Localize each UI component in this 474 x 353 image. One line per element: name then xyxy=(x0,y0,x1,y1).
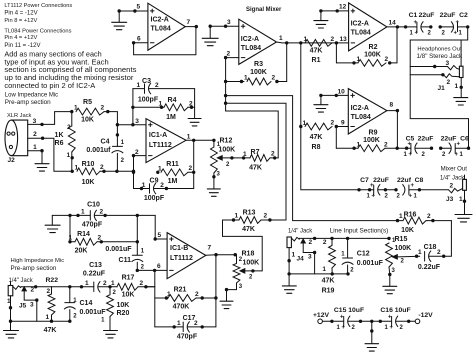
svg-text:2: 2 xyxy=(189,100,193,107)
svg-text:8: 8 xyxy=(390,101,394,108)
svg-text:2: 2 xyxy=(227,50,231,57)
svg-text:0.001uF: 0.001uF xyxy=(80,309,107,316)
svg-text:14: 14 xyxy=(389,20,397,27)
resistor R5 10K xyxy=(76,108,104,115)
ground at pin 5 xyxy=(118,11,120,22)
svg-text:1: 1 xyxy=(177,320,181,327)
svg-text:1: 1 xyxy=(418,249,422,256)
jack J5 high-Z input xyxy=(8,286,13,296)
svg-text:20K: 20K xyxy=(75,247,88,254)
svg-text:6: 6 xyxy=(137,36,141,43)
wire: IC1-A output row xyxy=(186,139,214,141)
svg-text:47K: 47K xyxy=(44,327,57,334)
wire: supply center to ground xyxy=(371,321,373,343)
wire: XLR pin 1 to ground xyxy=(28,151,42,164)
resistor R14 20K xyxy=(69,215,71,241)
svg-text:Headphones Out: Headphones Out xyxy=(417,46,462,52)
wire: pin 12 input xyxy=(321,10,349,12)
wire: mixer output down to line out xyxy=(301,127,359,190)
svg-text:1: 1 xyxy=(81,209,85,216)
ground at J4 xyxy=(282,285,296,287)
svg-text:R6: R6 xyxy=(55,140,64,147)
wire: IC1-A - input pin 2 xyxy=(134,155,147,157)
svg-text:2: 2 xyxy=(309,239,313,246)
resistor R6 1K xyxy=(71,112,73,126)
svg-text:C14: C14 xyxy=(80,300,93,307)
svg-text:1: 1 xyxy=(243,151,247,158)
svg-text:2: 2 xyxy=(67,124,71,131)
wire: R17 junction to - input and feedback xyxy=(146,286,155,288)
svg-text:J5: J5 xyxy=(19,303,27,310)
svg-text:47K: 47K xyxy=(310,47,323,54)
svg-text:12: 12 xyxy=(339,4,347,11)
svg-text:R3: R3 xyxy=(254,61,263,68)
ground at J1 xyxy=(454,97,468,99)
svg-text:22uF: 22uF xyxy=(418,135,434,142)
svg-text:1: 1 xyxy=(357,141,361,148)
svg-text:2: 2 xyxy=(427,213,431,220)
svg-text:TL084: TL084 xyxy=(351,29,371,36)
svg-text:J2: J2 xyxy=(8,157,16,164)
svg-text:6: 6 xyxy=(157,263,161,270)
wire: mixer output down to R8 xyxy=(300,43,302,127)
svg-text:R5: R5 xyxy=(83,99,92,106)
wire: C2 output down to jack line xyxy=(467,27,469,40)
capacitor C16 10uF xyxy=(372,320,392,322)
svg-text:2: 2 xyxy=(100,209,104,216)
svg-text:+: + xyxy=(390,325,394,331)
wire: XLR pin 3 xyxy=(28,112,72,125)
svg-text:+: + xyxy=(372,193,376,199)
svg-text:+: + xyxy=(415,31,419,37)
svg-text:IC2-A: IC2-A xyxy=(351,20,369,27)
svg-text:1: 1 xyxy=(33,144,37,151)
ground stub left xyxy=(51,215,53,225)
svg-text:1: 1 xyxy=(85,280,89,287)
op-amp IC1-B LT1112 (pins 5,6,7) xyxy=(167,233,206,279)
svg-text:1: 1 xyxy=(235,213,239,220)
svg-text:LT1112: LT1112 xyxy=(149,142,172,149)
svg-text:Mixer Out: Mixer Out xyxy=(441,166,468,173)
resistor R22 47K xyxy=(51,287,53,294)
svg-text:C15 10uF: C15 10uF xyxy=(334,307,364,314)
svg-text:C7: C7 xyxy=(360,177,369,184)
svg-text:1: 1 xyxy=(455,83,459,90)
svg-text:10K: 10K xyxy=(117,302,130,309)
wire: feedback loop output 7 to pin 6 xyxy=(134,27,196,55)
svg-text:XLR Jack: XLR Jack xyxy=(7,113,31,119)
wire: pin 2 summing bus vertical xyxy=(225,58,227,111)
ground at XLR pin 1 xyxy=(35,163,49,165)
svg-text:1: 1 xyxy=(459,196,463,203)
svg-text:+: + xyxy=(342,325,346,331)
wire: feedback right side to output xyxy=(215,255,217,327)
svg-text:3: 3 xyxy=(446,60,450,67)
terminal -12V xyxy=(415,319,420,324)
svg-text:2: 2 xyxy=(100,164,104,171)
svg-text:47K: 47K xyxy=(242,226,255,233)
svg-text:1: 1 xyxy=(187,133,191,140)
svg-text:2: 2 xyxy=(384,141,388,148)
svg-text:2: 2 xyxy=(331,36,335,43)
svg-text:1/8" Stereo Jack: 1/8" Stereo Jack xyxy=(417,53,464,60)
resistor R16 10K xyxy=(398,220,404,222)
svg-text:10K: 10K xyxy=(122,291,135,298)
svg-text:+: + xyxy=(388,314,392,320)
op-amp IC1-A LT1112 (pins 3,2,1) xyxy=(146,119,186,163)
svg-text:2: 2 xyxy=(450,183,454,190)
op-amp U-mixer IC2-A TL084 (pins 3,2,1) xyxy=(239,19,277,64)
wire: R18 wiper up to R13 xyxy=(245,270,262,272)
svg-text:C11: C11 xyxy=(119,257,132,264)
svg-text:0.22uF: 0.22uF xyxy=(418,264,441,271)
svg-text:Signal Mixer: Signal Mixer xyxy=(246,7,282,13)
svg-text:R20: R20 xyxy=(117,310,130,317)
note: power connection text block xyxy=(4,3,136,90)
svg-text:Pin 11 = -12V: Pin 11 = -12V xyxy=(4,43,40,49)
ground at J5 xyxy=(4,330,19,332)
svg-text:7: 7 xyxy=(208,245,212,252)
svg-text:Low Impedance Mic: Low Impedance Mic xyxy=(5,92,58,98)
svg-text:1: 1 xyxy=(142,182,146,189)
svg-text:1: 1 xyxy=(244,75,248,82)
wire: J5 to C13 xyxy=(52,286,94,288)
wire: J4 tip row xyxy=(299,237,389,239)
wire: bus line to line input section xyxy=(226,96,398,221)
svg-text:2: 2 xyxy=(194,320,198,327)
svg-text:1: 1 xyxy=(399,213,403,220)
resistor R11 1M feedback xyxy=(161,169,188,176)
wire: pin 3 up to C3 R4 xyxy=(132,89,134,125)
svg-text:100pF: 100pF xyxy=(144,195,165,202)
capacitor C7 22uF xyxy=(359,189,374,191)
svg-text:470pF: 470pF xyxy=(177,334,198,341)
svg-text:22uF: 22uF xyxy=(373,177,389,184)
note: Headphones Out label xyxy=(417,46,464,60)
wire: jack branch around text xyxy=(410,40,468,148)
svg-text:2: 2 xyxy=(31,287,35,294)
svg-text:2: 2 xyxy=(98,235,102,242)
svg-text:C18: C18 xyxy=(424,244,437,251)
ground at power supply xyxy=(365,343,379,345)
svg-text:Line Input Section(s): Line Input Section(s) xyxy=(330,228,389,235)
resistor R19 47K xyxy=(331,238,333,245)
svg-text:0.22uF: 0.22uF xyxy=(83,271,106,278)
svg-text:10K: 10K xyxy=(82,179,95,186)
svg-text:1: 1 xyxy=(111,280,115,287)
svg-text:10: 10 xyxy=(338,88,346,95)
svg-text:10K: 10K xyxy=(401,227,414,234)
wire: bottom row of J5 section xyxy=(11,320,70,322)
svg-text:Pre-amp section: Pre-amp section xyxy=(5,99,51,106)
capacitor C11 0.001uF xyxy=(136,215,138,255)
wire: R12 wiper to R7 xyxy=(223,157,250,159)
wire: top row to IC1-B + input xyxy=(155,215,167,239)
svg-text:C16 10uF: C16 10uF xyxy=(380,307,410,314)
ground at J3 xyxy=(455,214,472,216)
svg-text:+: + xyxy=(370,183,374,189)
svg-text:Pin 8 = +12V: Pin 8 = +12V xyxy=(4,18,37,24)
svg-text:2: 2 xyxy=(33,131,37,138)
svg-text:1: 1 xyxy=(303,120,307,127)
svg-text:+: + xyxy=(411,183,415,189)
resistor R9 100K feedback xyxy=(335,127,337,149)
svg-text:1: 1 xyxy=(75,164,79,171)
resistor R8 47K xyxy=(305,123,332,130)
jack J4 line input xyxy=(287,237,291,248)
svg-text:1: 1 xyxy=(304,36,308,43)
svg-text:9: 9 xyxy=(341,119,345,126)
ground at pin 10 xyxy=(320,95,322,104)
svg-text:C6: C6 xyxy=(460,135,469,142)
svg-text:+: + xyxy=(414,20,418,26)
svg-text:47K: 47K xyxy=(310,134,323,141)
svg-text:TL084: TL084 xyxy=(151,26,171,33)
svg-text:1: 1 xyxy=(67,152,71,159)
svg-text:IC2-A: IC2-A xyxy=(351,105,369,112)
svg-text:C12: C12 xyxy=(357,250,370,257)
svg-text:R21: R21 xyxy=(174,287,187,294)
svg-text:LT1112: LT1112 xyxy=(170,255,193,262)
svg-text:2: 2 xyxy=(103,280,107,287)
svg-text:47K: 47K xyxy=(322,277,335,284)
op-amp U-hp2 IC2-A TL084 (pins 10,9,8) xyxy=(348,89,387,134)
ground at R18 xyxy=(220,300,233,302)
wire: XLR pin 2 xyxy=(28,138,72,171)
svg-text:+: + xyxy=(408,141,412,147)
wire: J3 sleeve to ground xyxy=(464,190,466,214)
svg-text:2: 2 xyxy=(189,165,193,172)
svg-text:Pin 4 = -12V: Pin 4 = -12V xyxy=(4,11,37,17)
wire: output 7 xyxy=(185,26,196,28)
note: High Impedance Mic Pre-amp label xyxy=(9,258,65,284)
svg-text:2: 2 xyxy=(271,151,275,158)
note: Mixer Out label xyxy=(440,166,467,182)
svg-text:3: 3 xyxy=(30,302,34,309)
svg-text:R8: R8 xyxy=(312,144,321,151)
svg-text:7: 7 xyxy=(187,19,191,26)
svg-text:C13: C13 xyxy=(89,262,102,269)
svg-text:C10: C10 xyxy=(87,202,100,209)
svg-text:1: 1 xyxy=(74,105,78,112)
svg-text:0.001uf: 0.001uf xyxy=(86,147,111,154)
capacitor C12 0.001uF xyxy=(347,238,349,258)
svg-text:1/4" Jack: 1/4" Jack xyxy=(288,228,312,234)
wire: J4 sleeve down xyxy=(288,248,290,286)
svg-text:C2: C2 xyxy=(459,12,468,19)
svg-text:1: 1 xyxy=(357,56,361,63)
capacitor C6 22uF xyxy=(441,147,451,149)
note: XLR Jack label xyxy=(7,113,31,119)
svg-text:R1: R1 xyxy=(312,57,321,64)
ground at R12 xyxy=(207,188,220,190)
svg-text:LT1112 Power Connections: LT1112 Power Connections xyxy=(4,3,72,9)
jack J4 switch arrow xyxy=(300,238,306,244)
capacitor C1 22uF xyxy=(416,22,418,32)
capacitor C3 100pF xyxy=(133,88,145,90)
resistor R3 100K feedback xyxy=(226,81,244,83)
svg-text:2: 2 xyxy=(331,120,335,127)
jack J1 tip contact wire pin 3 xyxy=(410,66,447,68)
capacitor C8 22uF xyxy=(385,189,396,191)
svg-text:100K: 100K xyxy=(395,245,412,252)
svg-text:10K: 10K xyxy=(81,117,94,124)
svg-text:2: 2 xyxy=(160,182,164,189)
svg-text:2: 2 xyxy=(437,249,441,256)
svg-text:3: 3 xyxy=(33,118,37,125)
wire: R7 up to summing bus xyxy=(226,111,279,158)
resistor R20 10K xyxy=(109,287,111,295)
svg-text:100K: 100K xyxy=(363,137,380,144)
capacitor C14 0.001uF xyxy=(69,287,71,303)
wire: jack tip stem xyxy=(460,40,462,66)
resistor R1 47K xyxy=(305,40,332,47)
svg-text:+: + xyxy=(409,193,413,199)
wire: output 14 row xyxy=(387,26,417,28)
svg-text:1: 1 xyxy=(158,165,162,172)
svg-text:R17: R17 xyxy=(122,275,135,282)
svg-text:0.001uF: 0.001uF xyxy=(357,260,384,267)
svg-text:+: + xyxy=(454,31,458,37)
svg-text:Pin 4 = +12V: Pin 4 = +12V xyxy=(4,35,37,41)
svg-text:470K: 470K xyxy=(173,304,190,311)
svg-text:connected to pin 2 of IC2-A: connected to pin 2 of IC2-A xyxy=(4,81,95,90)
svg-text:R15: R15 xyxy=(395,236,408,243)
svg-text:R7: R7 xyxy=(251,149,260,156)
svg-text:IC1-A: IC1-A xyxy=(149,132,167,139)
jack J5 switch arrow xyxy=(21,286,27,292)
wire: IC1-A + input pin 3 xyxy=(117,124,146,126)
svg-text:1: 1 xyxy=(159,101,163,108)
svg-text:+: + xyxy=(340,314,344,320)
svg-text:1M: 1M xyxy=(168,178,178,185)
wire: pin 10 input xyxy=(321,94,348,96)
jack J3 mixer out xyxy=(419,189,448,191)
svg-text:1/4" Jack: 1/4" Jack xyxy=(9,278,33,284)
wire: bus line to high-Z section R13 xyxy=(226,103,286,220)
svg-text:J1: J1 xyxy=(438,85,446,92)
wire: C3 R4 right to ground xyxy=(194,89,196,119)
svg-text:2: 2 xyxy=(135,149,139,156)
svg-text:R19: R19 xyxy=(322,287,335,294)
svg-text:TL084: TL084 xyxy=(241,45,261,52)
svg-text:5: 5 xyxy=(137,4,141,11)
note: Low Impedance Mic Pre-amp section label xyxy=(5,92,58,106)
svg-text:5: 5 xyxy=(158,232,162,239)
ground at R4 xyxy=(188,118,201,120)
capacitor C5 22uF xyxy=(385,147,411,149)
svg-text:R18: R18 xyxy=(242,251,255,258)
svg-text:3: 3 xyxy=(135,118,139,125)
wire: IC1-B output row xyxy=(206,254,235,257)
svg-text:47K: 47K xyxy=(249,164,262,171)
capacitor C17 470pF xyxy=(155,326,183,328)
svg-text:2: 2 xyxy=(155,82,159,89)
terminal +12V xyxy=(318,319,323,324)
svg-text:+: + xyxy=(455,152,459,158)
svg-text:-12V: -12V xyxy=(418,312,433,319)
svg-text:100pF: 100pF xyxy=(138,97,159,104)
svg-text:R14: R14 xyxy=(77,231,90,238)
wire: mixer output row xyxy=(277,41,349,44)
wire: top row with ground xyxy=(52,214,90,216)
wire: pin5 input xyxy=(119,10,148,12)
svg-text:22uF: 22uF xyxy=(419,12,435,19)
capacitor C4 0.001uf xyxy=(116,125,118,147)
note: Line Input Section(s) label xyxy=(330,228,389,235)
wire: mixer - input pin 2 xyxy=(226,57,239,59)
capacitor C18 0.22uF xyxy=(424,251,426,261)
resistor R21 470K feedback xyxy=(155,297,168,299)
svg-text:470pF: 470pF xyxy=(82,221,103,228)
svg-text:100K: 100K xyxy=(243,259,260,266)
svg-text:R2: R2 xyxy=(369,44,378,51)
svg-text:100K: 100K xyxy=(219,146,236,153)
svg-text:R10: R10 xyxy=(82,161,95,168)
svg-text:C1: C1 xyxy=(409,12,418,19)
wire: R15 wiper to C18 xyxy=(398,255,420,258)
svg-text:2: 2 xyxy=(140,280,144,287)
resistor R4 1M xyxy=(133,106,164,108)
ground at R20 xyxy=(104,330,118,332)
ground at R15 xyxy=(383,285,397,287)
svg-text:1: 1 xyxy=(69,235,73,242)
wire: C11 to IC1-B - input xyxy=(137,269,167,271)
note: J4 quarter-inch jack label xyxy=(288,228,312,234)
svg-text:1: 1 xyxy=(46,314,50,321)
resistor R10 10K xyxy=(77,168,100,175)
svg-text:+: + xyxy=(456,20,460,26)
wire: R3 to mixer output xyxy=(286,42,288,81)
wire: J5 sleeve down xyxy=(10,296,12,331)
wire: J5 tip row xyxy=(21,286,52,288)
svg-text:1: 1 xyxy=(279,35,283,42)
svg-text:22uf: 22uf xyxy=(397,177,412,184)
svg-text:2: 2 xyxy=(323,239,327,246)
potentiometer R15 100K xyxy=(386,243,393,267)
svg-text:1K: 1K xyxy=(55,132,64,139)
wire: feedback right side xyxy=(193,140,195,188)
svg-text:R13: R13 xyxy=(243,209,256,216)
note: Signal Mixer title xyxy=(246,7,282,13)
capacitor C15 10uF xyxy=(322,320,343,322)
wire: - input down to C9 row xyxy=(133,156,135,189)
svg-text:3: 3 xyxy=(308,254,312,261)
svg-text:Pre-amp section: Pre-amp section xyxy=(11,265,57,272)
resistor R13 47K xyxy=(223,219,240,221)
svg-text:2: 2 xyxy=(101,105,105,112)
svg-text:2: 2 xyxy=(47,288,51,295)
svg-text:0.001uF: 0.001uF xyxy=(105,246,132,253)
svg-text:1M: 1M xyxy=(166,114,176,121)
wire: J1 sleeve to ground xyxy=(460,78,462,98)
svg-text:R11: R11 xyxy=(166,161,179,168)
svg-text:22uF: 22uF xyxy=(440,12,456,19)
svg-text:C3: C3 xyxy=(142,78,151,85)
svg-text:1: 1 xyxy=(137,82,141,89)
capacitor C13 0.22uF xyxy=(93,282,95,292)
svg-text:C4: C4 xyxy=(101,139,110,146)
resistor R2 100K feedback xyxy=(335,43,337,63)
jack J1 ring contact wire pin 2 xyxy=(410,74,443,76)
wire: C18 up to R16 xyxy=(444,221,452,257)
svg-text:3: 3 xyxy=(227,19,231,26)
wire: mixer + input pin 3 xyxy=(210,25,239,27)
svg-text:22uF: 22uF xyxy=(441,135,457,142)
svg-text:IC1-B: IC1-B xyxy=(170,245,188,252)
connector J2 XLR pin circles xyxy=(7,132,10,135)
svg-text:2: 2 xyxy=(385,56,389,63)
